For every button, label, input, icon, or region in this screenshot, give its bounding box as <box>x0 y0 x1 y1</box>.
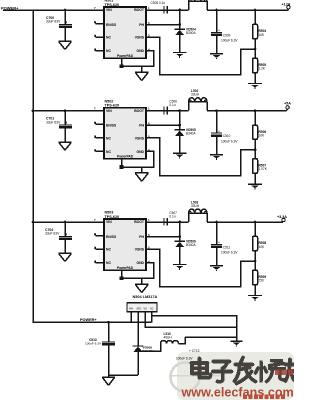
svg-text:NC: NC <box>150 307 154 310</box>
svg-text:1.2K: 1.2K <box>259 66 266 70</box>
svg-text:+3.3A: +3.3A <box>277 215 287 219</box>
svg-text:VO: VO <box>144 307 148 310</box>
svg-text:+12A: +12A <box>282 2 291 6</box>
svg-text:N504 LM317A: N504 LM317A <box>133 295 158 299</box>
svg-text:+: + <box>218 241 220 245</box>
svg-text:100uF 6.3V: 100uF 6.3V <box>221 251 238 255</box>
svg-text:0.1u: 0.1u <box>169 214 175 218</box>
svg-text:+: + <box>218 29 220 33</box>
svg-text:B340A: B340A <box>186 31 196 35</box>
svg-text:B340A: B340A <box>186 243 196 247</box>
svg-text:ADJ: ADJ <box>137 307 142 310</box>
svg-text:40UH: 40UH <box>164 336 173 340</box>
svg-text:C505 0.1u: C505 0.1u <box>151 1 166 5</box>
svg-text:33uF 63V: 33uF 63V <box>46 120 61 124</box>
svg-text:0.1u: 0.1u <box>169 103 175 107</box>
svg-text:B340A: B340A <box>186 132 196 136</box>
svg-text:C509: C509 <box>223 34 231 38</box>
svg-text:100uF 6.3V: 100uF 6.3V <box>221 39 238 43</box>
svg-text:C511: C511 <box>223 246 231 250</box>
svg-text:100uF 6.3V: 100uF 6.3V <box>85 342 102 346</box>
svg-text:+5A: +5A <box>284 101 291 105</box>
svg-text:33UH: 33UH <box>191 93 200 97</box>
svg-text:33UH: 33UH <box>191 204 200 208</box>
svg-text:POWER+: POWER+ <box>1 6 19 11</box>
svg-text:10K: 10K <box>259 134 266 138</box>
svg-text:33uF 63V: 33uF 63V <box>45 232 60 236</box>
svg-text:N503: N503 <box>105 211 114 215</box>
svg-text:33uF 63V: 33uF 63V <box>46 20 61 24</box>
svg-text:10K: 10K <box>259 33 266 37</box>
svg-text:100uF 6.3V: 100uF 6.3V <box>221 139 238 143</box>
svg-text:VIN: VIN <box>129 307 133 310</box>
svg-text:N502: N502 <box>105 99 114 103</box>
svg-text:+ C713: + C713 <box>189 349 200 353</box>
svg-text:10K: 10K <box>259 245 266 249</box>
svg-text:N501: N501 <box>105 0 114 3</box>
svg-text:100uF 6.3V: 100uF 6.3V <box>176 357 193 361</box>
svg-text:1.07K: 1.07K <box>259 167 268 171</box>
svg-text:C510: C510 <box>223 134 231 138</box>
svg-text:750: 750 <box>259 278 265 282</box>
svg-text:POWER+: POWER+ <box>80 318 97 322</box>
svg-text:+: + <box>218 129 220 133</box>
